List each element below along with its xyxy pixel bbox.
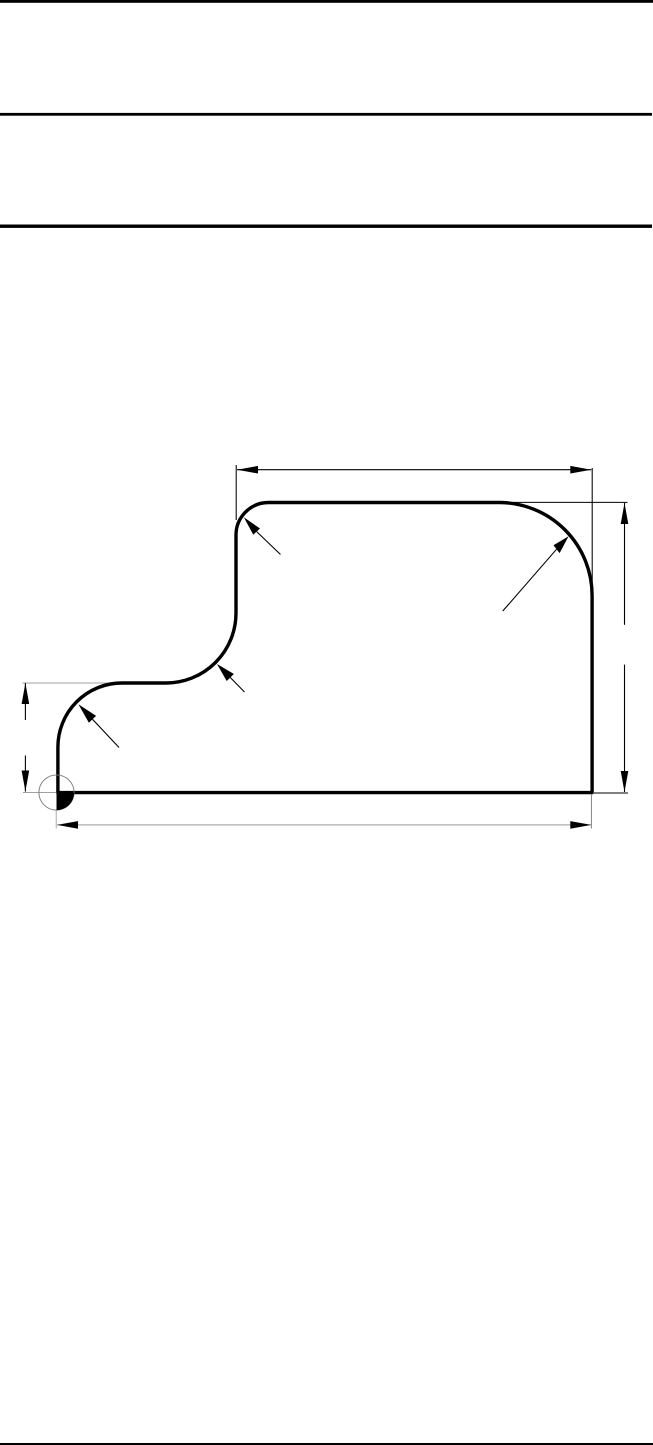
part contour profile <box>58 503 592 793</box>
header rule 2 <box>0 225 652 228</box>
leader for lower-left radius: line <box>93 719 120 747</box>
extension line below origin <box>55 810 57 829</box>
top dimension line <box>237 469 591 471</box>
leader for upper-left radius: line <box>257 532 281 555</box>
right dimension down arrowhead <box>621 771 629 792</box>
leader for top-right radius: line <box>503 549 557 611</box>
left dimension up arrowhead <box>22 683 30 704</box>
leader for upper-left radius: arrowhead <box>244 517 260 535</box>
bottom dimension line <box>57 824 591 826</box>
left dimension line lower segment <box>24 756 26 792</box>
leader for top-right radius: arrowhead <box>554 536 569 553</box>
left dimension down arrowhead <box>22 771 30 792</box>
top dimension left arrowhead <box>237 466 258 474</box>
origin symbol filled quadrant <box>57 793 75 811</box>
bottom dimension right arrowhead <box>570 821 591 829</box>
bottom dimension left arrowhead <box>57 821 78 829</box>
header top bar <box>0 0 653 3</box>
extension line right at top level <box>501 501 628 503</box>
extension line left at ledge level <box>22 682 119 684</box>
top dimension right arrowhead <box>570 466 591 474</box>
extension line below right corner <box>590 795 592 829</box>
origin symbol circle <box>39 775 74 810</box>
extension line top-right vertical <box>591 468 593 591</box>
leader for concave radius: line <box>230 678 244 693</box>
left dimension line upper segment <box>24 683 26 720</box>
right dimension line lower segment <box>624 665 626 792</box>
footer rule <box>0 1443 653 1445</box>
leader for concave radius: arrowhead <box>217 664 234 681</box>
right dimension line upper segment <box>624 503 626 625</box>
extension line right at bottom level <box>594 792 628 794</box>
leader for lower-left radius: arrowhead <box>78 704 96 722</box>
right dimension up arrowhead <box>621 503 629 524</box>
extension line top-left vertical <box>235 465 237 520</box>
header rule 1 <box>0 113 652 116</box>
extension line left at origin level <box>23 792 56 794</box>
